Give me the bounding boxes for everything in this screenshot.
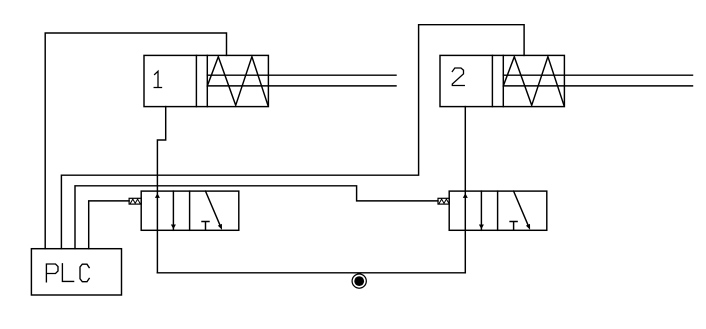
wire cylinder 2 port to valve V2 and supply manifold [464, 107, 466, 273]
wire PLC to cylinder 2 head [61, 25, 524, 249]
valve V2 solenoid Y2 [438, 198, 449, 204]
valve V1 right-position exhaust diagonal [206, 191, 221, 226]
compressed air source dot [354, 276, 364, 286]
cylinder 1 label "1" [154, 71, 161, 87]
valve V1 left-position flow line A [172, 191, 174, 230]
valve V2 flow arrow up [463, 193, 468, 198]
cylinder 1 label box divider [195, 55, 197, 106]
valve V2 right-position blocked port T [510, 222, 517, 231]
wire PLC to solenoid Y1 [89, 201, 129, 249]
cylinder 1 body [144, 55, 268, 106]
wire supply manifold [157, 272, 465, 274]
valve V1 flow arrow down [171, 225, 176, 230]
cylinder 2 label box divider [491, 55, 493, 106]
valve V1 right-position blocked port T [202, 222, 209, 231]
cylinder 1 return spring [207, 57, 268, 106]
cylinder 2 body [440, 55, 564, 106]
valve V1 exhaust arrowhead [218, 224, 222, 230]
valve V1 position divider [189, 191, 191, 230]
valve V2 position divider [497, 191, 499, 230]
cylinder 2 piston [502, 55, 504, 106]
cylinder 1 piston rod [207, 75, 396, 86]
wire PLC to solenoid Y2 [75, 186, 438, 249]
valve V1 body [141, 191, 239, 230]
wire PLC to cylinder 1 head [45, 33, 226, 249]
cylinder 2 return spring [503, 57, 564, 106]
compressed air source [352, 274, 366, 288]
valve V2 body [449, 191, 547, 230]
cylinder 2 label "2" [452, 68, 464, 86]
valve V2 flow arrow down [479, 225, 484, 230]
PLC text [46, 264, 89, 282]
PLC controller box [31, 249, 121, 295]
cylinder 2 piston rod [503, 75, 692, 86]
cylinder 1 piston [206, 55, 208, 106]
valve V2 exhaust arrowhead [526, 224, 530, 230]
valve V2 left-position flow line A [480, 191, 482, 230]
wire cylinder 1 port to valve V1 and supply manifold [157, 107, 165, 273]
valve V1 flow arrow up [155, 193, 160, 198]
valve V2 right-position exhaust diagonal [514, 191, 529, 226]
valve V1 solenoid Y1 [129, 198, 141, 204]
